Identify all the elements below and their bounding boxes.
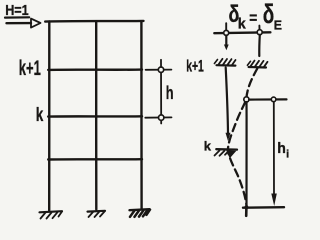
svg-text:h: h	[277, 140, 286, 157]
dimension line h	[160, 60, 162, 124]
support hatch k+1 left	[214, 59, 235, 66]
node circle top-right	[257, 30, 262, 35]
tick at k+1	[146, 69, 172, 71]
svg-text:i: i	[286, 149, 289, 161]
label h_i	[277, 140, 289, 161]
beam floor k+1	[48, 68, 142, 71]
beam floor k	[48, 115, 142, 118]
support hatch k+1 right	[247, 61, 267, 68]
beam roof	[45, 20, 143, 23]
column middle	[95, 22, 98, 210]
node circle k	[159, 115, 164, 120]
bottom junction tick	[245, 208, 248, 216]
deflected shape dashed curve	[228, 69, 257, 207]
ground support middle	[88, 211, 106, 217]
svg-text:k+1: k+1	[19, 57, 41, 80]
lower column with arrow	[226, 68, 231, 141]
svg-text:k+1: k+1	[186, 57, 204, 76]
svg-text:k: k	[238, 16, 247, 33]
svg-text:k: k	[36, 105, 44, 126]
label delta_E	[263, 0, 282, 32]
label delta_k	[229, 1, 247, 33]
node circle top-left	[224, 30, 229, 35]
dimension line h_i	[271, 102, 277, 206]
bottom line	[243, 206, 284, 209]
label H=1	[5, 3, 29, 19]
svg-text:E: E	[274, 18, 282, 32]
svg-text:h: h	[166, 83, 174, 103]
node circle k+1	[158, 67, 163, 72]
svg-text:k: k	[204, 139, 212, 154]
beam lower floor	[48, 158, 142, 161]
pointer stem right	[258, 26, 260, 30]
upper column stub left with arrow	[224, 36, 229, 51]
tick at k	[145, 116, 171, 118]
support at k	[215, 149, 238, 158]
top chord line	[214, 31, 270, 34]
svg-text:δ: δ	[263, 0, 275, 29]
ground support right	[130, 209, 151, 217]
svg-text:=: =	[249, 8, 257, 27]
solid column mid	[245, 102, 247, 208]
load arrow H	[7, 19, 41, 28]
bottom junction blob	[244, 205, 248, 209]
column right	[140, 21, 143, 208]
column left	[48, 22, 51, 211]
node circle mid	[244, 97, 249, 102]
pointer stem left	[225, 23, 227, 30]
node circle on dim line	[271, 97, 276, 102]
mid horizontal line	[249, 98, 287, 100]
ground support left	[40, 211, 63, 218]
upper column stub right	[258, 35, 261, 56]
